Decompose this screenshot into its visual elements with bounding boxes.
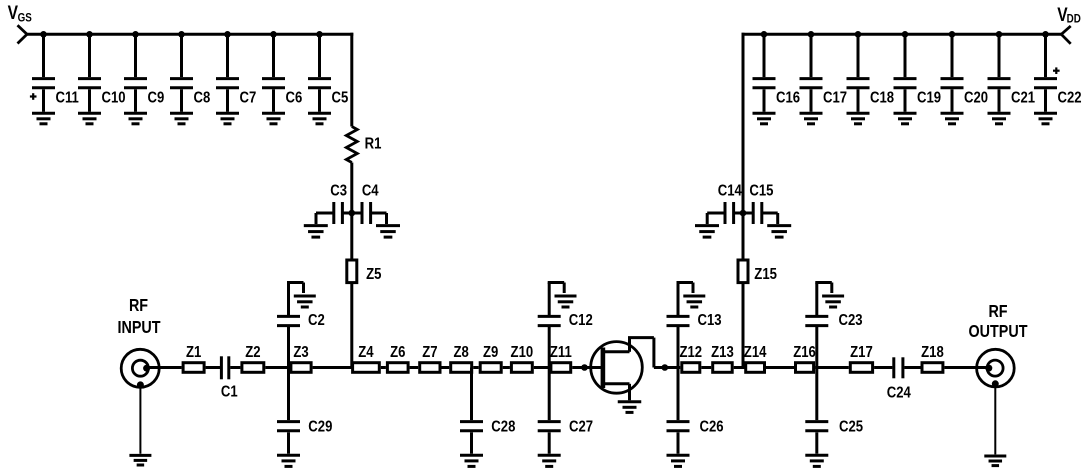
capacitor C22 (electrolytic, + mark)	[1034, 34, 1082, 112]
capacitor C8	[170, 34, 210, 112]
svg-text:C19: C19	[917, 89, 941, 106]
wire R1 to node C3/C4	[350, 163, 353, 214]
capacitor C7	[216, 34, 256, 112]
wire C23 arm to ground	[815, 283, 832, 294]
svg-text:C27: C27	[569, 418, 593, 435]
wire VGS rail drop to R1	[350, 33, 353, 127]
svg-text:Z13: Z13	[711, 344, 734, 361]
capacitor C17	[800, 34, 848, 112]
svg-text:RF: RF	[129, 297, 148, 316]
wire Z9 to Z10	[503, 366, 510, 369]
svg-text:Z16: Z16	[793, 344, 816, 361]
svg-text:C15: C15	[749, 182, 773, 199]
ground for C20	[941, 113, 964, 124]
capacitor C12 (shunt to ground above line)	[538, 283, 593, 368]
ground for C3	[304, 226, 328, 238]
node junction drain	[662, 364, 669, 371]
node junction gate	[581, 364, 588, 371]
svg-text:C4: C4	[362, 182, 380, 199]
ground for C11	[32, 113, 55, 124]
svg-text:Z9: Z9	[483, 344, 498, 361]
ground for C23	[822, 296, 844, 307]
node junction C9 on rail	[132, 31, 139, 38]
svg-text:C2: C2	[308, 312, 325, 329]
capacitor C19	[894, 34, 942, 112]
ground for source	[618, 402, 642, 413]
node junction C6 on rail	[270, 31, 277, 38]
svg-text:C21: C21	[1011, 89, 1035, 106]
ground for C18	[847, 113, 870, 124]
svg-text:C7: C7	[240, 89, 257, 106]
impedance element Z13	[711, 344, 734, 373]
impedance element Z14	[744, 344, 767, 373]
wire Z12 to Z13	[701, 366, 711, 369]
ground for C7	[216, 113, 239, 124]
svg-text:Z8: Z8	[454, 344, 469, 361]
svg-text:GS: GS	[18, 12, 32, 25]
wire Z13 to Z14	[734, 366, 746, 369]
impedance element Z15	[738, 260, 777, 283]
wire C2 arm to ground	[287, 283, 304, 294]
svg-text:C28: C28	[491, 418, 515, 435]
ground output connector	[984, 456, 1006, 466]
wire Z6 to Z7	[410, 366, 419, 369]
wire VGS rail	[27, 33, 353, 36]
node junction C20 on rail	[949, 31, 956, 38]
node junction C5 on rail	[316, 31, 323, 38]
svg-text:C10: C10	[102, 89, 126, 106]
VDD input terminal arrow	[1061, 26, 1070, 44]
ground for C14	[695, 226, 719, 238]
ground for C13	[683, 296, 705, 307]
svg-text:Z10: Z10	[511, 344, 534, 361]
ground for C2	[294, 296, 316, 307]
ground for C12	[555, 296, 577, 307]
svg-text:C3: C3	[330, 182, 347, 199]
RF INPUT label	[117, 297, 160, 338]
impedance element Z16	[793, 344, 816, 373]
wire Z1 to C1	[206, 366, 220, 369]
net label VDD	[1057, 4, 1081, 26]
capacitor C6	[262, 34, 302, 112]
ground for C26	[667, 455, 690, 466]
node junction C21 on rail	[996, 31, 1003, 38]
svg-text:C11: C11	[56, 89, 79, 106]
impedance element Z7	[420, 344, 440, 373]
svg-text:C8: C8	[194, 89, 211, 106]
svg-text:C1: C1	[221, 383, 238, 400]
capacitor C13 (shunt to ground above line)	[667, 283, 722, 368]
svg-text:C26: C26	[700, 418, 724, 435]
RF OUTPUT label	[969, 303, 1028, 342]
VGS input terminal arrow	[18, 25, 28, 43]
impedance element Z1	[183, 344, 204, 373]
impedance element Z4	[353, 344, 380, 373]
wire source to ground	[628, 384, 631, 401]
wire Z4 to Z6	[381, 366, 386, 369]
svg-text:C17: C17	[823, 89, 847, 106]
wire VDD rail drop	[742, 33, 745, 213]
wire VDD rail	[742, 33, 1062, 36]
ground for C9	[124, 113, 147, 124]
net label VGS	[8, 1, 32, 24]
svg-text:DD: DD	[1067, 13, 1081, 26]
impedance element Z17	[850, 344, 873, 373]
ground for C19	[894, 113, 917, 124]
wire Z17 to C24	[874, 366, 892, 369]
capacitor C25 (shunt to ground below line)	[805, 368, 863, 454]
impedance element Z2	[242, 344, 264, 373]
impedance element Z9	[480, 344, 501, 373]
capacitor C24 (series)	[887, 357, 912, 402]
capacitor C4	[352, 182, 387, 224]
capacitor C26 (shunt to ground below line)	[667, 368, 724, 454]
svg-text:Z15: Z15	[754, 266, 777, 283]
wire Z3 to Z4	[313, 366, 352, 369]
node junction C19 on rail	[902, 31, 909, 38]
ground for C16	[753, 113, 776, 124]
svg-text:C20: C20	[964, 89, 988, 106]
ground for C10	[78, 113, 101, 124]
node junction C17 on rail	[808, 31, 815, 38]
svg-text:Z3: Z3	[293, 344, 308, 361]
svg-text:C24: C24	[887, 384, 912, 401]
ground for C29	[277, 455, 300, 466]
capacitor C23 (shunt to ground above line)	[805, 283, 862, 368]
ground for C6	[262, 113, 285, 124]
capacitor C2 (shunt to ground above line)	[277, 283, 325, 368]
svg-text:Z4: Z4	[358, 344, 374, 361]
transistor Q1 (GaAs FET)	[591, 342, 643, 394]
capacitor C9	[124, 34, 164, 112]
svg-text:Z17: Z17	[850, 344, 873, 361]
svg-text:C9: C9	[148, 89, 165, 106]
impedance element Z6	[387, 344, 408, 373]
svg-text:Z14: Z14	[744, 344, 767, 361]
wire C13 arm to ground	[677, 283, 694, 294]
ground for C27	[538, 455, 561, 466]
capacitor C21	[988, 34, 1036, 112]
wire Z14 to Z16	[766, 366, 794, 369]
capacitor C18	[847, 34, 895, 112]
impedance element Z8	[451, 344, 472, 373]
wire Z8 to Z9	[473, 366, 479, 369]
wire drain to output node	[628, 338, 680, 368]
capacitor C20	[941, 34, 989, 112]
wire input connector shield to ground	[139, 385, 141, 454]
wire Z11 to transistor gate	[572, 366, 601, 369]
capacitor C16	[753, 34, 801, 112]
svg-text:Z5: Z5	[366, 266, 381, 283]
wire C24 to Z18	[904, 366, 920, 369]
svg-text:C29: C29	[308, 418, 332, 435]
node junction C7 on rail	[224, 31, 231, 38]
wire C12 arm to ground	[548, 283, 565, 294]
capacitor C29 (shunt to ground below line)	[277, 368, 332, 454]
svg-text:C6: C6	[286, 89, 303, 106]
ground for C28	[460, 455, 483, 466]
capacitor C15	[743, 182, 778, 224]
capacitor C27 (shunt to ground below line)	[538, 368, 593, 454]
connector J2 RF output	[977, 349, 1015, 387]
impedance element Z12	[679, 344, 702, 373]
node junction C22 on rail	[1042, 31, 1049, 38]
ground for C8	[170, 113, 193, 124]
svg-text:C23: C23	[839, 312, 863, 329]
svg-text:Z18: Z18	[921, 344, 944, 361]
node junction C10 on rail	[86, 31, 93, 38]
wire node to Z15	[742, 213, 745, 260]
wire C1 to Z2	[230, 366, 240, 369]
wire Z5 to main line	[350, 283, 353, 368]
node junction C3/C4	[349, 210, 356, 217]
svg-text:Z6: Z6	[390, 344, 405, 361]
wire Z16 to Z17	[815, 366, 849, 369]
wire node to Z5	[350, 213, 353, 260]
svg-text:Z2: Z2	[245, 344, 260, 361]
wire Z18 to output connector	[944, 366, 988, 369]
wire input to Z1	[147, 366, 182, 369]
ground for C25	[805, 455, 828, 466]
capacitor C1 (series)	[221, 356, 238, 400]
capacitor C3	[316, 182, 352, 224]
node junction C8 on rail	[178, 31, 185, 38]
ground for C21	[988, 113, 1011, 124]
svg-text:Z12: Z12	[679, 344, 702, 361]
svg-text:V: V	[8, 1, 19, 23]
resistor R1	[346, 127, 381, 163]
svg-text:C18: C18	[870, 89, 894, 106]
ground for C22	[1034, 113, 1057, 124]
impedance element Z10	[511, 344, 534, 373]
svg-text:C25: C25	[839, 418, 863, 435]
svg-text:INPUT: INPUT	[117, 319, 160, 338]
svg-text:RF: RF	[988, 303, 1007, 322]
capacitor C11 (electrolytic, + mark)	[30, 34, 79, 112]
ground for C15	[767, 226, 791, 238]
node junction C18 on rail	[855, 31, 862, 38]
svg-text:C16: C16	[776, 89, 800, 106]
node junction C11 on rail	[40, 31, 47, 38]
connector J1 RF input	[121, 349, 159, 388]
wire Z2 to Z3	[265, 366, 289, 369]
ground input connector	[129, 455, 151, 465]
svg-text:C14: C14	[718, 182, 743, 199]
wire Z15 to main line	[742, 283, 745, 368]
node junction C14/C15	[740, 210, 747, 217]
capacitor C5	[308, 34, 348, 112]
svg-text:C22: C22	[1058, 89, 1082, 106]
capacitor C10	[78, 34, 126, 112]
capacitor C14	[707, 182, 743, 224]
impedance element Z11	[550, 344, 572, 373]
impedance element Z3	[291, 344, 311, 373]
node junction C16 on rail	[761, 31, 768, 38]
svg-text:C13: C13	[698, 312, 722, 329]
capacitor C28 (shunt to ground below line)	[460, 368, 515, 454]
impedance element Z5	[347, 260, 382, 283]
wire Z10 to Z11	[534, 366, 550, 369]
wire Z7 to Z8	[442, 366, 450, 369]
svg-text:Z1: Z1	[186, 344, 201, 361]
svg-text:OUTPUT: OUTPUT	[969, 323, 1028, 342]
impedance element Z18	[921, 344, 944, 373]
ground for C4	[376, 226, 400, 238]
wire output connector shield to ground	[994, 384, 996, 455]
svg-text:C12: C12	[569, 312, 593, 329]
svg-text:Z7: Z7	[422, 344, 437, 361]
ground for C17	[800, 113, 823, 124]
svg-text:Z11: Z11	[550, 344, 572, 361]
ground for C5	[308, 113, 331, 124]
svg-text:R1: R1	[365, 135, 382, 152]
svg-text:C5: C5	[332, 89, 349, 106]
